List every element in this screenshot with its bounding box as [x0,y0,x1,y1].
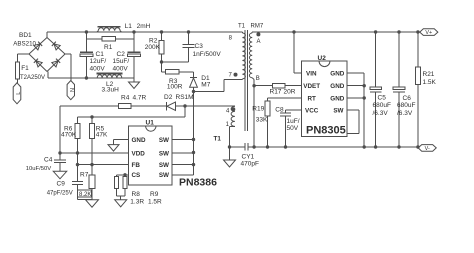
svg-text:1nF/500V: 1nF/500V [193,51,222,58]
svg-text:1.5R: 1.5R [148,199,162,206]
svg-text:SW: SW [159,150,169,157]
svg-text:SW: SW [159,162,169,169]
svg-text:3.3uH: 3.3uH [102,87,120,94]
svg-text:L: L [16,92,22,95]
svg-text:B: B [256,76,260,82]
svg-text:VDD: VDD [132,150,146,157]
svg-text:RM7: RM7 [251,24,264,30]
svg-text:GND: GND [330,83,344,90]
svg-text:7: 7 [229,73,233,79]
svg-text:15uF/: 15uF/ [113,58,130,65]
svg-text:N: N [70,88,76,92]
svg-text:T1: T1 [214,136,222,143]
svg-text:470pF: 470pF [241,161,259,168]
svg-text:FB: FB [132,162,141,169]
svg-text:8.2K: 8.2K [79,192,91,198]
svg-text:V-: V- [425,146,430,152]
svg-text:C5: C5 [378,95,387,102]
svg-text:C2: C2 [117,51,126,58]
svg-text:400V: 400V [113,66,129,73]
svg-text:SW: SW [333,107,343,114]
svg-text:T1: T1 [238,24,246,30]
svg-text:F1: F1 [21,65,29,72]
svg-text:C4: C4 [44,156,53,163]
svg-text:47pF/25V: 47pF/25V [47,191,73,197]
svg-text:GND: GND [330,95,344,102]
svg-text:CS: CS [132,172,141,179]
svg-text:R8: R8 [132,191,141,198]
svg-text:BD1: BD1 [19,32,32,39]
svg-text:ABS210: ABS210 [13,40,36,47]
svg-text:GND: GND [330,70,344,77]
svg-text:400V: 400V [90,66,106,73]
svg-text:470K: 470K [61,132,77,139]
svg-text:R19: R19 [252,106,264,113]
svg-text:VIN: VIN [306,70,317,77]
svg-text:8: 8 [229,36,233,42]
svg-text:1.3R: 1.3R [130,199,144,206]
svg-text:RS1M: RS1M [176,94,194,101]
svg-text:RT: RT [308,95,317,102]
svg-text:PN8386: PN8386 [179,176,217,188]
svg-text:U1: U1 [146,120,155,127]
svg-text:12uF/: 12uF/ [90,58,107,65]
svg-text:47K: 47K [96,132,108,139]
svg-text:M7: M7 [201,82,210,89]
svg-text:4.7R: 4.7R [133,95,147,102]
svg-text:100R: 100R [167,84,183,91]
svg-text:33K: 33K [256,117,268,124]
svg-text:T2A250V: T2A250V [20,75,45,81]
svg-text:/6.3V: /6.3V [397,110,413,117]
svg-text:GND: GND [132,137,146,144]
svg-text:200K: 200K [145,44,161,51]
svg-text:20R: 20R [284,89,296,96]
svg-text:C3: C3 [195,43,204,50]
svg-text:C1: C1 [96,51,105,58]
svg-text:VDET: VDET [303,83,320,90]
svg-text:R17: R17 [270,89,282,96]
svg-text:R9: R9 [150,191,159,198]
svg-text:U2: U2 [318,55,327,62]
svg-text:2mH: 2mH [137,23,151,30]
svg-text:4: 4 [226,109,230,115]
svg-text:SW: SW [159,137,169,144]
svg-text:L1: L1 [125,23,133,30]
svg-text:R21: R21 [423,71,435,78]
svg-text:R7: R7 [80,171,89,178]
svg-text:R1: R1 [104,44,113,51]
svg-text:/6.3V: /6.3V [373,110,389,117]
svg-text:680uF: 680uF [373,102,391,109]
svg-text:A: A [257,39,261,45]
svg-text:10uF/50V: 10uF/50V [26,166,52,172]
svg-text:D2: D2 [164,94,173,101]
svg-text:PN8305: PN8305 [306,124,346,136]
svg-text:V+: V+ [425,30,432,36]
svg-text:1.5K: 1.5K [423,79,437,86]
svg-text:680uF: 680uF [397,102,415,109]
svg-text:C8: C8 [275,107,284,114]
svg-text:50V: 50V [287,125,299,132]
svg-text:SW: SW [159,172,169,179]
svg-text:C9: C9 [57,181,66,188]
svg-text:R4: R4 [121,95,130,102]
svg-text:VCC: VCC [305,107,319,114]
